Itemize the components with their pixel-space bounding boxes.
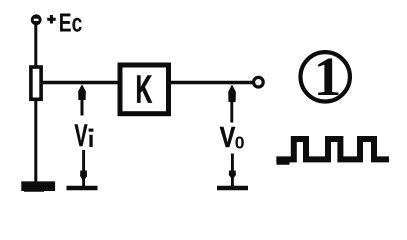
svg-text:K: K [136,68,153,111]
svg-text:Ec: Ec [59,7,83,37]
svg-text:1: 1 [314,46,342,107]
svg-text:V: V [75,117,88,153]
svg-text:0: 0 [235,133,245,153]
svg-text:V: V [220,122,236,154]
